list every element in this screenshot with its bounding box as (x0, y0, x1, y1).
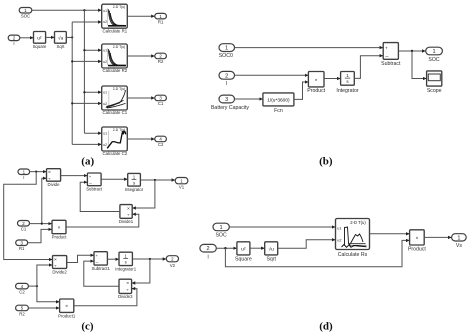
block Product1 (58, 299, 76, 318)
svg-text:–: – (89, 181, 92, 186)
node junction R2 u2 (71, 60, 73, 62)
svg-text:I: I (23, 175, 24, 180)
node junction C1 (41, 223, 43, 225)
wire Integrator to Subtract minus input (354, 56, 383, 79)
svg-text:2-D T(u): 2-D T(u) (113, 128, 126, 132)
inport 3 R1 (16, 240, 28, 251)
svg-text:u²: u² (37, 35, 42, 41)
svg-text:SOC: SOC (215, 233, 226, 239)
inport 5 R2 (16, 305, 29, 316)
svg-text:÷: ÷ (127, 214, 130, 219)
svg-text:Scope: Scope (427, 88, 442, 94)
svg-text:u2: u2 (103, 102, 107, 106)
inport 3 Battery Capacity (211, 95, 249, 111)
node junction R2 tap (83, 49, 85, 51)
svg-text:SOC: SOC (428, 57, 439, 63)
svg-text:1/(u*3600): 1/(u*3600) (267, 97, 290, 103)
outport 2 V2 (166, 256, 178, 268)
svg-text:×: × (58, 225, 61, 231)
block Divide3 (mirrored) (118, 279, 133, 299)
block Divide1 (mirrored) (119, 205, 134, 224)
inport 2 I (200, 244, 216, 260)
wire Sqrt to vertical bus (66, 36, 72, 38)
svg-text:u2: u2 (103, 143, 107, 147)
outport 2 R2 (155, 53, 167, 64)
svg-text:(c): (c) (81, 320, 94, 332)
wire R1 to Product second input (28, 229, 52, 242)
block Square (d) (235, 242, 252, 263)
svg-text:–: – (385, 54, 388, 60)
wire C2 down to Product1 (37, 286, 59, 302)
wire tap to Calculate C2 u2 (72, 143, 101, 145)
svg-text:C2: C2 (158, 142, 164, 147)
svg-text:×: × (315, 77, 318, 83)
svg-text:V2: V2 (170, 263, 176, 268)
inport 2 I (219, 71, 235, 87)
block Subtract (381, 43, 401, 67)
wire SOC tap to Calculate R2 u1 (84, 49, 101, 51)
svg-text:Divide: Divide (48, 182, 61, 187)
svg-text:Divide2: Divide2 (52, 269, 67, 274)
wire Subtract to outport SOC (398, 50, 425, 52)
block Divide2 (52, 256, 67, 275)
wire C1 to Product (30, 223, 52, 225)
block Product (c) (52, 220, 68, 239)
svg-text:u1: u1 (103, 9, 107, 13)
svg-text:Subtract1: Subtract1 (91, 266, 110, 271)
wire SOC0 to Subtract plus input (235, 47, 383, 49)
outport 1 R1 (155, 13, 167, 24)
svg-text:×: × (48, 170, 51, 176)
node junction C1 tap (83, 91, 85, 93)
svg-text:Divide1: Divide1 (119, 219, 134, 224)
svg-text:Calculate R2: Calculate R2 (102, 68, 127, 73)
node junction on I wire (224, 247, 226, 249)
inport 1 SOC0 (219, 44, 235, 60)
svg-text:Calculate Rs: Calculate Rs (338, 252, 368, 258)
wire tap to Calculate R1 u2 (72, 21, 101, 23)
svg-text:Calculate R1: Calculate R1 (102, 28, 127, 33)
svg-text:u²: u² (241, 246, 246, 252)
wire Product to Divide1 second input (66, 214, 139, 227)
svg-text:Fcn: Fcn (274, 108, 283, 114)
node junction V1 (154, 179, 156, 181)
wire Integrator to outport V1 (140, 179, 174, 181)
svg-text:Sqrt: Sqrt (266, 256, 276, 262)
svg-text:u1: u1 (103, 49, 107, 53)
svg-text:u1: u1 (103, 132, 107, 136)
wire I to Divide first input (30, 171, 46, 173)
inport 4 C2 (16, 283, 29, 294)
wire Product to outport Vs (424, 236, 451, 238)
wire Square to Sqrt (46, 36, 55, 38)
svg-text:u2: u2 (337, 238, 341, 242)
svg-text:Product: Product (408, 247, 426, 253)
svg-text:2-D T(u): 2-D T(u) (350, 220, 366, 225)
outport 1 Vs (452, 234, 467, 249)
svg-text:SOC: SOC (21, 14, 30, 19)
svg-text:1: 1 (220, 225, 223, 231)
wire Divide1 to Subtract minus input (80, 182, 120, 211)
wire C2 up to Divide2 second input (37, 265, 52, 286)
node junction C2 (36, 285, 38, 287)
svg-text:Battery Capacity: Battery Capacity (211, 105, 249, 111)
inport 1 SOC (19, 8, 32, 19)
wire Product to Integrator (324, 78, 340, 80)
wire Battery Capacity to Fcn (235, 98, 263, 100)
svg-text:√u: √u (269, 246, 275, 252)
svg-text:Square: Square (33, 44, 47, 49)
svg-text:s: s (125, 259, 127, 264)
svg-text:R2: R2 (19, 311, 25, 316)
wire SOC vertical bus (83, 10, 85, 133)
svg-text:R2: R2 (158, 59, 164, 64)
svg-text:Divide3: Divide3 (118, 294, 133, 299)
svg-text:×: × (415, 236, 418, 242)
wire Divide3 to Subtract1 minus input (84, 261, 119, 286)
svg-text:2-D T(u): 2-D T(u) (113, 45, 126, 49)
wire R2 to Product1 second input (28, 307, 59, 309)
wire Integrator1 to outport V2 (132, 258, 166, 260)
svg-text:Integrator: Integrator (336, 88, 358, 94)
svg-text:Product: Product (307, 88, 325, 94)
svg-text:(d): (d) (319, 320, 333, 332)
block Product (307, 72, 325, 95)
wire Calculate R2 to outport R2 (127, 55, 154, 57)
wire I to Product (235, 74, 309, 76)
svg-text:C1: C1 (21, 227, 27, 232)
svg-text:√u: √u (58, 35, 64, 41)
node Sqrt junction (71, 36, 73, 38)
wire sqrt vertical bus (71, 22, 73, 144)
svg-text:(b): (b) (319, 155, 333, 167)
svg-text:×: × (65, 304, 68, 310)
svg-text:C2: C2 (19, 289, 25, 294)
svg-text:Subtract: Subtract (86, 187, 103, 192)
wire Divide to Subtract plus input (61, 175, 87, 177)
block Calculate C1 2-D lookup (102, 86, 128, 115)
wire C1 riser to Divide second input (42, 178, 46, 223)
wire I feedback to Divide2 (4, 172, 52, 260)
outport 3 C1 (155, 95, 167, 106)
svg-text:R1: R1 (158, 19, 164, 24)
block Calculate C2 2-D lookup (102, 127, 128, 156)
wire SOC tap to Calculate C2 u1 (84, 132, 101, 134)
svg-text:×: × (126, 281, 129, 287)
block Subtract1 (91, 252, 110, 271)
wire branch to Scope (412, 51, 426, 79)
wire Calculate C2 to outport C2 (127, 138, 154, 140)
svg-text:Product: Product (52, 235, 68, 240)
wire Product1 to Divide3 second input (74, 289, 137, 306)
svg-text:Square: Square (235, 256, 252, 262)
block Calculate Rs 2-D lookup (336, 219, 370, 259)
wire Subtract1 to Integrator1 (107, 258, 118, 260)
svg-text:3: 3 (225, 97, 228, 103)
svg-text:I: I (13, 41, 14, 46)
svg-text:Subtract: Subtract (381, 61, 401, 67)
wire I branch to Product second input (225, 240, 409, 266)
block Calculate R2 2-D lookup (102, 44, 128, 73)
wire I to Square (216, 247, 236, 249)
wire I to Square (20, 37, 33, 39)
node junction after Subtract (411, 50, 413, 52)
inport 2 I (8, 35, 20, 46)
wire Calculate C1 to outport C1 (127, 97, 154, 99)
wire SOC tap to Calculate C1 u1 (84, 91, 101, 93)
wire Divide2 to Subtract1 plus input (67, 255, 94, 262)
wire C2 to junction (28, 285, 37, 287)
svg-text:×: × (127, 206, 130, 212)
block Integrator (c) (125, 173, 144, 192)
svg-text:C1: C1 (158, 101, 164, 106)
block Subtract (c) (86, 173, 103, 192)
svg-text:I: I (226, 81, 227, 87)
svg-text:Integrator: Integrator (125, 187, 144, 192)
inport 1 I (18, 169, 30, 180)
wire tap to Calculate R2 u2 (72, 60, 101, 62)
wire SOC to Calculate R1 u1 (32, 9, 102, 11)
wire V2 branch to Divide3 (132, 259, 150, 283)
inport 2 C1 (18, 221, 30, 232)
svg-text:u1: u1 (103, 91, 107, 95)
block Scope (427, 71, 442, 94)
block Integrator1 (115, 252, 136, 271)
svg-text:Sqrt: Sqrt (57, 44, 66, 49)
wire Subtract to Integrator (101, 178, 127, 180)
svg-text:1: 1 (457, 235, 460, 241)
wire Calculate R1 to outport R1 (127, 15, 154, 17)
outport 1 V1 (175, 178, 188, 190)
outport 4 C2 (155, 136, 167, 147)
svg-text:u2: u2 (103, 60, 107, 64)
svg-text:Calculate C2: Calculate C2 (102, 151, 127, 156)
block Sqrt (d) (265, 242, 278, 263)
block Sqrt (55, 32, 67, 50)
svg-text:Calculate C1: Calculate C1 (102, 110, 127, 115)
block Calculate R1 2-D lookup (102, 4, 128, 33)
svg-text:V1: V1 (179, 185, 185, 190)
svg-text:2-D T(u): 2-D T(u) (113, 87, 126, 91)
svg-text:u1: u1 (337, 227, 341, 231)
outport 1 SOC (426, 47, 443, 63)
svg-text:s: s (133, 180, 135, 185)
svg-text:u2: u2 (103, 20, 107, 24)
svg-text:2: 2 (207, 246, 210, 252)
block Fcn 1/(u*3600) (263, 93, 294, 114)
block Product (d) (408, 230, 426, 253)
svg-text:1: 1 (225, 46, 228, 52)
svg-text:2-D T(u): 2-D T(u) (113, 5, 126, 9)
node SOC distribution junction (83, 9, 85, 11)
node junction V2 (149, 258, 151, 260)
wire Sqrt to Calculate Rs u2 (278, 240, 335, 248)
svg-text:+: + (385, 46, 388, 51)
wire tap to Calculate C1 u2 (72, 102, 101, 104)
inport 1 SOC (213, 223, 229, 238)
block Square (33, 32, 47, 50)
svg-text:R1: R1 (19, 246, 25, 251)
node junction on I wire (35, 171, 37, 173)
svg-text:(a): (a) (81, 155, 94, 167)
block Integrator (336, 72, 358, 95)
svg-text:×: × (54, 257, 57, 263)
svg-text:Integrator1: Integrator1 (115, 266, 136, 271)
svg-text:2: 2 (225, 73, 228, 79)
block Divide (47, 169, 61, 188)
svg-text:–: – (96, 260, 99, 265)
svg-text:1: 1 (432, 49, 435, 55)
svg-text:SOC0: SOC0 (219, 53, 233, 59)
svg-text:Vs: Vs (456, 243, 462, 249)
svg-text:Product1: Product1 (58, 313, 76, 318)
wire SOC to Calculate Rs u1 (229, 226, 335, 228)
wire V1 branch to Divide1 (133, 180, 155, 208)
node junction C1 u2 (71, 102, 73, 104)
wire Square to Sqrt (250, 247, 264, 249)
svg-text:I: I (207, 255, 208, 261)
wire Calculate Rs to Product (370, 233, 410, 235)
wire Fcn to Product second input (294, 82, 308, 99)
